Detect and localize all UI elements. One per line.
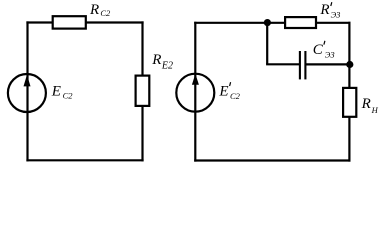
svg-text:C2: C2 — [230, 91, 241, 101]
wire capacitor-branch right — [306, 63, 349, 65]
wire right-circuit right — [348, 22, 350, 162]
svg-text:C2: C2 — [100, 8, 111, 18]
wire left-circuit bottom — [26, 159, 143, 161]
resistor R'_Э3 — [285, 17, 316, 28]
label R'_Э3 — [319, 2, 340, 20]
source E'_C2 — [176, 74, 214, 112]
wire right-circuit top — [194, 22, 350, 24]
wire capacitor-branch left — [266, 63, 299, 65]
wire right-circuit bottom — [194, 159, 350, 161]
svg-text:R: R — [89, 2, 99, 18]
svg-text:R: R — [361, 96, 371, 112]
svg-text:C2: C2 — [63, 91, 74, 101]
wire right-circuit left — [194, 22, 196, 162]
node junction right (cap branch / R_H) — [346, 61, 353, 68]
svg-text:Э3: Э3 — [331, 10, 341, 20]
wire capacitor-branch vertical — [266, 23, 268, 65]
resistor R_E2 — [136, 76, 150, 106]
label E_C2 — [51, 83, 73, 100]
svg-text:Н: Н — [371, 105, 379, 115]
svg-text:R: R — [151, 52, 161, 68]
svg-text:E: E — [51, 83, 61, 99]
label C'_Э3 — [313, 41, 335, 60]
resistor R_H — [343, 88, 356, 117]
svg-text:R: R — [319, 2, 329, 18]
capacitor C'_Э3 — [300, 51, 306, 79]
svg-text:E: E — [218, 84, 228, 100]
label R_H — [361, 96, 379, 115]
wire left-circuit left — [26, 21, 28, 161]
source E_C2 — [8, 74, 46, 112]
wire left-circuit top — [26, 21, 143, 23]
svg-text:C: C — [313, 42, 324, 58]
wire left-circuit right — [141, 21, 143, 161]
label R_E2 — [151, 52, 173, 72]
label E'_C2 — [218, 82, 240, 101]
label R_C2 — [89, 2, 111, 18]
resistor R_C2 — [53, 16, 86, 28]
svg-text:Э3: Э3 — [325, 50, 335, 60]
svg-text:E2: E2 — [161, 61, 173, 72]
node junction top (cap branch / R'_Э3) — [264, 19, 271, 26]
